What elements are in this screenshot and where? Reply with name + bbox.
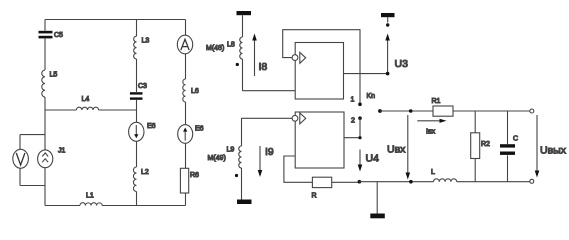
source E6 middle	[129, 122, 156, 141]
wire C branch	[507, 111, 509, 182]
node U3 junction	[386, 72, 390, 76]
label U4	[366, 153, 380, 165]
op-amp U1 box	[295, 43, 343, 100]
node 1 dot	[351, 97, 362, 107]
svg-text:J1: J1	[58, 148, 66, 155]
svg-text:L: L	[431, 169, 435, 176]
svg-text:I8: I8	[259, 61, 268, 73]
svg-text:1: 1	[351, 97, 355, 104]
arrow Ivx	[417, 119, 446, 136]
svg-text:2: 2	[351, 118, 355, 125]
terminal out top	[530, 109, 534, 113]
label Uvyx	[540, 145, 567, 157]
svg-text:R2: R2	[481, 141, 490, 148]
wire L2 to bottom	[136, 192, 138, 206]
arrow I8	[252, 34, 267, 77]
wire R2 branch	[474, 111, 476, 182]
svg-text:M(49): M(49)	[208, 155, 226, 162]
wire voltmeter loop bottom	[20, 168, 45, 185]
wire L4 branch	[45, 109, 137, 111]
svg-text:C: C	[513, 136, 518, 143]
dot L9 polarity	[235, 174, 238, 177]
svg-text:Kn: Kn	[367, 93, 376, 100]
label U3	[395, 58, 409, 70]
capacitor C filter	[500, 136, 518, 155]
resistor R2	[471, 133, 490, 159]
dot input node	[378, 109, 382, 113]
label M(48)	[206, 45, 224, 52]
inductor L4	[76, 96, 98, 110]
svg-text:M(48): M(48)	[206, 45, 224, 52]
wire L9 to ground	[241, 168, 243, 200]
wire R1 to terminal	[453, 110, 530, 112]
current source J1	[38, 148, 66, 168]
svg-text:R6: R6	[190, 172, 199, 179]
resistor R	[312, 177, 332, 199]
inductor L filter	[431, 169, 457, 182]
wire left branch upper	[44, 20, 46, 31]
svg-text:U3: U3	[395, 58, 409, 70]
dot L8 polarity	[236, 63, 239, 66]
op-amp U2 input circle	[292, 115, 298, 121]
label Kn	[367, 93, 376, 100]
wire bar to L8	[242, 15, 244, 37]
svg-text:L6: L6	[191, 88, 199, 95]
wire E6 to L2	[136, 141, 138, 167]
inductor L8	[227, 37, 243, 59]
op-amp U2 box	[295, 112, 344, 168]
terminal bar above L8	[237, 11, 252, 15]
arrow U3	[385, 34, 390, 73]
inductor L9	[227, 146, 242, 168]
wire J1 stems	[44, 135, 46, 206]
op-amp U1 input circle	[292, 55, 298, 61]
source E6 right	[178, 125, 204, 144]
capacitor C5	[39, 31, 64, 39]
ammeter A	[177, 35, 192, 54]
wire voltmeter loop top	[20, 135, 45, 150]
wire U2 lower input to R	[284, 156, 313, 182]
voltmeter V	[13, 149, 29, 168]
dot node2 corner	[358, 136, 361, 139]
wire E6 to R6	[185, 143, 187, 168]
wire right branch top	[185, 20, 187, 36]
arrow Uvx	[406, 115, 411, 180]
svg-text:E6: E6	[147, 123, 156, 130]
wire L9 top to opamp U2	[242, 118, 293, 146]
dot U3 terminal	[386, 23, 389, 26]
wire R6 to bottom	[185, 193, 187, 206]
wire C3 to E6 with node	[136, 100, 138, 123]
svg-text:L9: L9	[227, 147, 235, 154]
svg-text:L4: L4	[82, 96, 90, 103]
inductor L2	[133, 167, 148, 192]
ground bottom	[370, 182, 385, 219]
wire bottom rail left circuit	[45, 205, 186, 207]
wire U1 feedback loop	[283, 30, 360, 103]
svg-text:U4: U4	[366, 153, 380, 165]
svg-text:I9: I9	[265, 146, 274, 158]
arrow U4	[358, 150, 363, 172]
label M(49)	[208, 155, 226, 162]
arrow Uvyx	[535, 115, 540, 178]
inductor L3	[134, 36, 150, 59]
arrow I9	[258, 146, 274, 177]
label Uvx	[387, 144, 406, 156]
wire L8 to opamp U1 input	[243, 59, 296, 91]
wire L6 to E6	[185, 102, 187, 125]
wire L5 to loop	[44, 97, 46, 135]
wire top rail to R1	[380, 110, 433, 112]
dot Uvx top	[409, 109, 413, 113]
svg-text:L3: L3	[142, 38, 150, 45]
terminal out bottom	[530, 179, 534, 183]
wire A to L6	[185, 54, 187, 79]
svg-text:L5: L5	[50, 72, 58, 79]
wire R to bottom rail	[332, 181, 360, 183]
wire top rail left circuit	[45, 19, 186, 21]
wire bottom rail right	[359, 181, 530, 183]
svg-text:R1: R1	[432, 98, 441, 105]
resistor R1	[432, 98, 454, 116]
terminal U3 top	[381, 13, 395, 23]
svg-text:L8: L8	[227, 42, 235, 49]
op-amp U1 triangle	[300, 52, 306, 63]
wire middle branch top	[136, 20, 138, 37]
svg-text:L2: L2	[141, 169, 149, 176]
wire U1 output	[344, 73, 388, 75]
svg-text:C3: C3	[138, 83, 147, 90]
svg-text:E6: E6	[195, 126, 204, 133]
wire C5 to L5	[44, 38, 46, 70]
svg-text:C5: C5	[54, 32, 63, 39]
svg-text:Iвх: Iвх	[426, 129, 436, 136]
capacitor C3	[130, 83, 147, 100]
ground bar L9	[237, 200, 252, 205]
op-amp U2 triangle	[300, 113, 306, 124]
inductor L5	[42, 70, 58, 97]
svg-text:R: R	[312, 193, 317, 200]
svg-text:L1: L1	[86, 193, 94, 200]
svg-text:Uвх: Uвх	[387, 144, 406, 156]
wire node2 to U2 output	[344, 118, 360, 138]
inductor L1	[80, 193, 102, 206]
svg-text:Uвых: Uвых	[540, 145, 567, 157]
dot bottom rail left	[358, 180, 362, 184]
node 2 dot	[351, 116, 362, 124]
dot Uvx bottom	[409, 180, 413, 184]
inductor L6	[183, 79, 199, 102]
resistor R6	[180, 168, 199, 193]
wire L3 to C3	[136, 59, 138, 92]
